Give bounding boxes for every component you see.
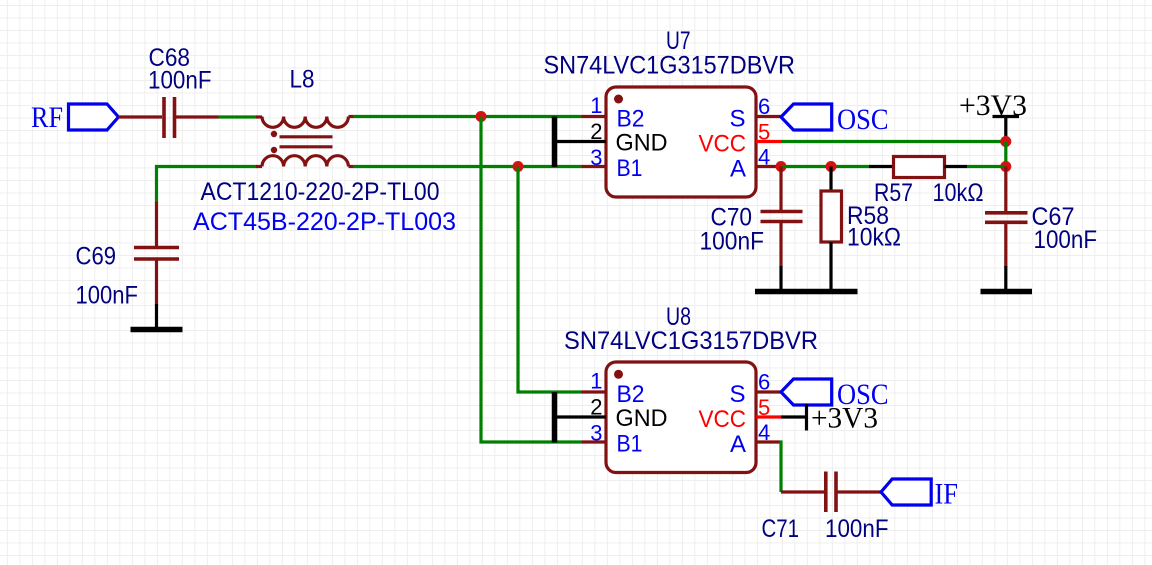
- svg-text:3: 3: [590, 145, 602, 170]
- svg-text:100nF: 100nF: [700, 228, 765, 256]
- capacitor C68: [164, 97, 219, 138]
- svg-text:B1: B1: [617, 155, 643, 182]
- svg-text:ACT1210-220-2P-TL00: ACT1210-220-2P-TL00: [201, 178, 440, 206]
- svg-text:B1: B1: [617, 431, 643, 458]
- svg-text:RF: RF: [31, 101, 63, 134]
- svg-text:100nF: 100nF: [1034, 226, 1098, 254]
- svg-text:100nF: 100nF: [148, 67, 212, 95]
- wire rail down: [1004, 142, 1007, 167]
- svg-text:5: 5: [758, 120, 770, 145]
- U8 pin 3 stub: [582, 440, 607, 443]
- svg-text:VCC: VCC: [699, 131, 747, 158]
- junction L8 bottom / U8 B2 branch: [513, 161, 524, 172]
- svg-text:VCC: VCC: [699, 406, 747, 433]
- svg-text:L8: L8: [290, 66, 315, 94]
- svg-text:GND: GND: [616, 130, 668, 157]
- transformer L8: [262, 117, 348, 167]
- port RF: [31, 101, 119, 134]
- svg-text:B2: B2: [617, 381, 645, 408]
- svg-text:IF: IF: [935, 478, 959, 511]
- capacitor C71: [826, 472, 881, 513]
- U7 pin 5 stub: [756, 140, 781, 143]
- capacitor C69: [134, 248, 179, 306]
- ground C69: [131, 304, 183, 330]
- junction +3V3 / pin5 rail: [1000, 136, 1011, 147]
- svg-text:S: S: [729, 106, 745, 133]
- svg-text:A: A: [730, 431, 746, 458]
- svg-text:4: 4: [758, 145, 770, 170]
- svg-text:GND: GND: [616, 405, 668, 432]
- wire L8 bottom to U7 pin 3: [349, 165, 355, 168]
- svg-text:3: 3: [590, 421, 602, 446]
- IC U7: [606, 87, 756, 197]
- svg-text:SN74LVC1G3157DBVR: SN74LVC1G3157DBVR: [544, 52, 796, 80]
- U8 pin 5 stub: [756, 415, 781, 418]
- power +3V3 at U8 pin 5: [781, 402, 878, 435]
- svg-text:6: 6: [758, 94, 770, 119]
- power +3V3 top: [959, 89, 1027, 142]
- svg-text:10kΩ: 10kΩ: [933, 179, 984, 207]
- svg-text:1: 1: [590, 369, 602, 394]
- svg-text:100nF: 100nF: [76, 282, 139, 310]
- ground bar C70 R58: [755, 289, 858, 295]
- capacitor C67: [985, 167, 1028, 290]
- resistor R58: [821, 167, 842, 290]
- svg-text:ACT45B-220-2P-TL003: ACT45B-220-2P-TL003: [193, 208, 456, 236]
- svg-text:5: 5: [758, 395, 770, 420]
- svg-text:100nF: 100nF: [825, 515, 889, 543]
- U8 pin 4 stub: [756, 440, 780, 443]
- ground symbol at U8 pin 2: [555, 392, 607, 443]
- svg-text:B2: B2: [617, 106, 645, 133]
- svg-text:C71: C71: [762, 515, 800, 543]
- port OSC at U8: [781, 378, 889, 411]
- junction C67 node: [1000, 161, 1011, 172]
- svg-text:6: 6: [758, 370, 770, 395]
- wire U7 pin4 to R58: [781, 165, 869, 168]
- capacitor C70: [761, 167, 803, 290]
- U7 pin 1 stub: [582, 115, 607, 118]
- U7 pin 3 stub: [582, 165, 607, 168]
- svg-text:+3V3: +3V3: [811, 402, 878, 435]
- wire U8 pin 4 to C71: [780, 442, 825, 492]
- junction U7 pin 4: [776, 161, 787, 172]
- wire RF to C68: [119, 115, 163, 118]
- svg-text:C69: C69: [76, 243, 117, 271]
- svg-text:A: A: [730, 156, 746, 183]
- junction R58 node: [826, 161, 837, 172]
- wire C68 to L8: [219, 115, 258, 118]
- U8 pin 6 stub: [756, 390, 781, 393]
- wire junction to U8 pin 3: [481, 117, 582, 443]
- U7 pin 6 stub: [756, 115, 781, 118]
- port IF: [881, 478, 958, 511]
- wire junction to U8 pin 1: [518, 167, 582, 393]
- svg-text:4: 4: [758, 420, 770, 445]
- junction L8 top / U8 B1 branch: [476, 111, 487, 122]
- svg-text:OSC: OSC: [837, 103, 889, 136]
- ground symbol at U7 pin 2: [555, 117, 607, 168]
- port OSC at U7: [781, 103, 889, 136]
- svg-text:SN74LVC1G3157DBVR: SN74LVC1G3157DBVR: [564, 327, 818, 355]
- svg-text:S: S: [729, 381, 745, 408]
- U8 pin 1 stub: [582, 390, 607, 393]
- resistor R57: [869, 157, 1006, 178]
- ground bar C67: [981, 289, 1033, 295]
- wire L8 top to U7 pin 1: [349, 115, 355, 118]
- IC U8: [606, 362, 756, 473]
- svg-text:1: 1: [590, 93, 602, 118]
- wire U7 pin 5 to +3V3 rail: [781, 140, 1006, 143]
- U7 pin 4 stub: [756, 165, 781, 168]
- svg-text:10kΩ: 10kΩ: [847, 224, 901, 252]
- wire L8 bottom to C69: [157, 167, 258, 204]
